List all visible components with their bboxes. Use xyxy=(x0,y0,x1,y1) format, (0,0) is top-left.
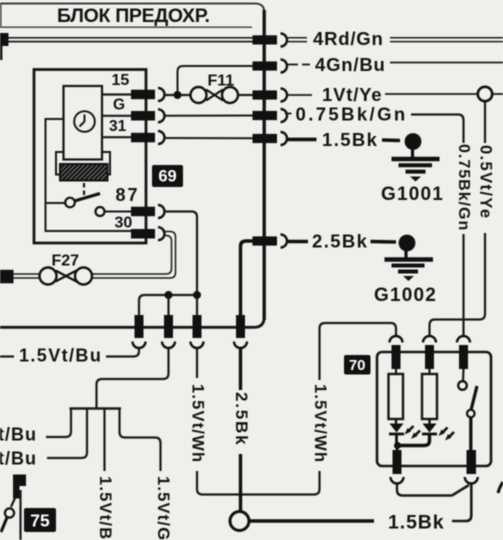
internal wire from body to terminal 30 xyxy=(46,119,134,231)
svg-text:2.5Bk: 2.5Bk xyxy=(312,231,368,252)
wire 2.5Bk from P4 xyxy=(239,348,242,390)
splice node circle xyxy=(230,512,249,531)
comp75 contact circle xyxy=(5,508,14,517)
svg-text:2.5Bk: 2.5Bk xyxy=(232,392,251,446)
comp70 cup C2 xyxy=(423,336,436,342)
connector T5 (1.5Bk row) xyxy=(253,134,278,143)
wire 30 to F27 double line inner xyxy=(92,236,172,275)
comp70 pin C1 xyxy=(392,345,401,369)
wire G to T4 xyxy=(165,115,253,117)
svg-text:4Rd/Gn: 4Rd/Gn xyxy=(313,28,384,49)
relay pin 30 xyxy=(131,229,155,239)
relay coil (hatched) xyxy=(60,164,108,181)
wire 0.5Vt/Ye from junction circle xyxy=(484,102,486,144)
svg-text:70: 70 xyxy=(349,357,366,374)
wire 1.5Bk thick dash xyxy=(286,138,317,142)
connector T6 (2.5Bk row) xyxy=(253,236,278,245)
coil bracket right xyxy=(102,152,110,175)
wire 4Gn/Bu dashes xyxy=(287,64,298,66)
wire harness feed from P2 xyxy=(97,348,169,409)
svg-text:1.5Vt/Bu: 1.5Vt/Bu xyxy=(19,346,102,366)
switch lever xyxy=(471,386,477,411)
relay pin 31 xyxy=(131,133,155,143)
harness drop 4 xyxy=(120,409,161,472)
wire B1 to B2 link xyxy=(397,485,452,496)
wire body to pin G xyxy=(102,115,134,117)
cut-off glyph at right edge xyxy=(498,482,503,493)
mechanical link dashed xyxy=(83,183,85,197)
svg-text:0.75Bk/Gn: 0.75Bk/Gn xyxy=(455,144,472,231)
connector T1 (4Rd/Gn row) xyxy=(253,35,278,44)
svg-text:0.75Bk/Gn: 0.75Bk/Gn xyxy=(296,104,408,125)
wire 4Gn/Bu right xyxy=(390,62,503,64)
comp70 pin C2 xyxy=(425,345,434,369)
junction dot xyxy=(193,291,201,299)
wire bus 87 feed to pins xyxy=(139,295,197,315)
comp70 pin C3 xyxy=(459,345,468,369)
svg-text:87: 87 xyxy=(116,185,140,205)
svg-text:31: 31 xyxy=(109,118,127,135)
wire to bottom pin xyxy=(396,446,399,452)
bottom pin P4 xyxy=(236,315,245,338)
svg-text:1.5Vt/Bu: 1.5Vt/Bu xyxy=(96,476,114,540)
fuse block box bottom edge xyxy=(0,317,264,327)
svg-text:t/Bu: t/Bu xyxy=(0,449,37,469)
fuse block box right edge xyxy=(263,10,266,320)
resistor R1 xyxy=(395,369,397,375)
coil bracket left xyxy=(56,152,64,175)
clock symbol xyxy=(74,111,95,132)
LED D2 arrows xyxy=(442,428,448,434)
comp70 bottom pin B2 xyxy=(467,450,477,474)
wire diagonal to B2 xyxy=(452,485,469,496)
fuse F11 xyxy=(191,87,207,103)
wire 2.5Bk from pin4 xyxy=(241,241,253,315)
wire dot to pin2 xyxy=(167,295,169,315)
title box left edge xyxy=(0,3,2,27)
bottom pin P2 xyxy=(164,315,173,338)
wire 4Rd/Gn dashes xyxy=(288,37,307,39)
wire body to pin 31 xyxy=(102,136,134,138)
wire LED join xyxy=(397,434,430,446)
wire to ground G1002 xyxy=(371,240,397,244)
harness drop 3 xyxy=(103,409,105,472)
wire 1.5Bk to ground xyxy=(382,138,400,142)
connector T4 (0.75Bk/Gn row) xyxy=(253,111,278,120)
wire 1.5Vt/Wh to comp70 cup1 xyxy=(320,323,397,380)
svg-text:1Vt/Ye: 1Vt/Ye xyxy=(322,84,382,105)
wire 1Vt/Ye right xyxy=(385,93,478,95)
bottom pin P3 xyxy=(193,315,202,338)
wire 1.5Bk bottom xyxy=(249,519,374,523)
svg-text:БЛОК ПРЕДОХР.: БЛОК ПРЕДОХР. xyxy=(57,5,210,27)
comp75 wire to contact xyxy=(11,498,15,507)
connector T3 (1Vt/Ye row) xyxy=(253,90,278,99)
comp75 wire down xyxy=(19,490,21,540)
wire 4Gn/Bu to F11 node xyxy=(178,66,253,93)
wire 1.5Vt/Bu from P1 xyxy=(106,348,139,357)
bottom pin P1 xyxy=(135,315,144,338)
connector T2 (4Gn/Bu row) xyxy=(253,61,278,70)
ground G1002 xyxy=(399,235,416,252)
harness bar xyxy=(70,407,122,410)
relay switch lever xyxy=(75,194,101,202)
junction dot xyxy=(174,91,182,99)
comp75 lever xyxy=(1,518,7,533)
svg-text:G: G xyxy=(113,97,125,114)
relay body xyxy=(64,86,103,160)
wire 30 to F27 double line outer xyxy=(92,232,176,279)
comp75 terminal pin xyxy=(13,475,26,487)
svg-text:F11: F11 xyxy=(208,73,235,90)
tag 75 xyxy=(24,508,56,532)
wire 1.5Vt/Wh from P3 xyxy=(196,348,198,378)
svg-text:1.5Bk: 1.5Bk xyxy=(388,512,445,534)
junction dot xyxy=(394,442,401,449)
tag 69 xyxy=(152,165,183,187)
wire dash xyxy=(285,113,292,115)
F27 wire to left edge double xyxy=(13,273,40,275)
wire F11 to T3 xyxy=(238,94,253,96)
wire 1Vt/Ye dash xyxy=(288,94,312,96)
svg-text:F27: F27 xyxy=(52,253,80,270)
harness drop 2 xyxy=(47,409,87,459)
svg-text:G1001: G1001 xyxy=(381,184,444,205)
junction dot xyxy=(165,291,173,299)
fuse F27 xyxy=(40,268,57,285)
comp70 cup C3 xyxy=(457,336,470,342)
switch contact circle xyxy=(458,381,467,390)
bus terminal pin at left edge xyxy=(0,33,9,46)
svg-text:G1002: G1002 xyxy=(374,285,437,306)
comp70 bottom pin B1 xyxy=(393,450,402,474)
junction circle 0.5Vt/Ye xyxy=(478,87,492,101)
relay pin 15 xyxy=(131,90,155,100)
svg-text:30: 30 xyxy=(115,215,133,232)
edge artifact sliver xyxy=(0,45,2,60)
svg-text:1.5Vt/Wh: 1.5Vt/Wh xyxy=(189,384,207,463)
wire 4Rd/Gn double line right xyxy=(390,37,503,39)
relay pin G xyxy=(131,111,155,121)
title separator line xyxy=(0,26,252,28)
wire C3 to switch contact xyxy=(462,369,465,381)
relay pin 87 xyxy=(131,207,155,217)
svg-text:15: 15 xyxy=(112,72,130,89)
LED D2 xyxy=(428,419,430,424)
LED D1 arrows xyxy=(408,426,414,432)
wire body to pin 15 xyxy=(102,93,134,95)
wire to lever pivot xyxy=(46,202,66,204)
svg-text:1.5Bk: 1.5Bk xyxy=(322,129,378,150)
contact 87 circle xyxy=(96,207,105,216)
relay box 69 xyxy=(34,70,146,244)
comp70 box xyxy=(377,352,491,466)
wire 0.75Bk/Gn to comp70 xyxy=(411,115,464,144)
switch pivot circle xyxy=(467,410,475,418)
svg-text:75: 75 xyxy=(30,511,50,531)
svg-text:1.5Vt/Gn: 1.5Vt/Gn xyxy=(154,476,172,540)
ground G1001 xyxy=(405,133,422,150)
lever pivot circle xyxy=(65,198,75,208)
svg-text:1.5Vt/Wh: 1.5Vt/Wh xyxy=(311,384,329,463)
wire 0.5Vt/Ye to comp70 cup2 xyxy=(430,233,486,337)
svg-text:t/Bu: t/Bu xyxy=(0,425,37,445)
LED D1 xyxy=(395,419,397,424)
comp70 cup C1 xyxy=(390,336,403,342)
fuse block box top edge xyxy=(0,4,264,13)
svg-text:69: 69 xyxy=(158,168,176,186)
wire 31 to T5 xyxy=(165,137,253,139)
wire right of circle xyxy=(493,93,503,95)
wire 15 to F11 xyxy=(165,94,192,96)
wire 87 contact to pin xyxy=(105,211,135,213)
bus wire 30 double line xyxy=(8,37,253,39)
harness drop 1 xyxy=(46,409,71,438)
wire 2.5Bk thick dash xyxy=(287,240,308,244)
svg-text:4Gn/Bu: 4Gn/Bu xyxy=(315,54,386,75)
wire U link bottom xyxy=(197,471,320,495)
resistor R2 xyxy=(428,369,430,375)
wire 87 to bottom pins xyxy=(165,212,198,316)
svg-text:0.5Vt/Ye: 0.5Vt/Ye xyxy=(477,145,495,220)
F27 terminal pin at left edge xyxy=(0,270,14,284)
wire 1.5Bk corner up xyxy=(452,484,471,521)
tag 70 xyxy=(344,355,371,375)
switch wire down xyxy=(469,418,472,452)
